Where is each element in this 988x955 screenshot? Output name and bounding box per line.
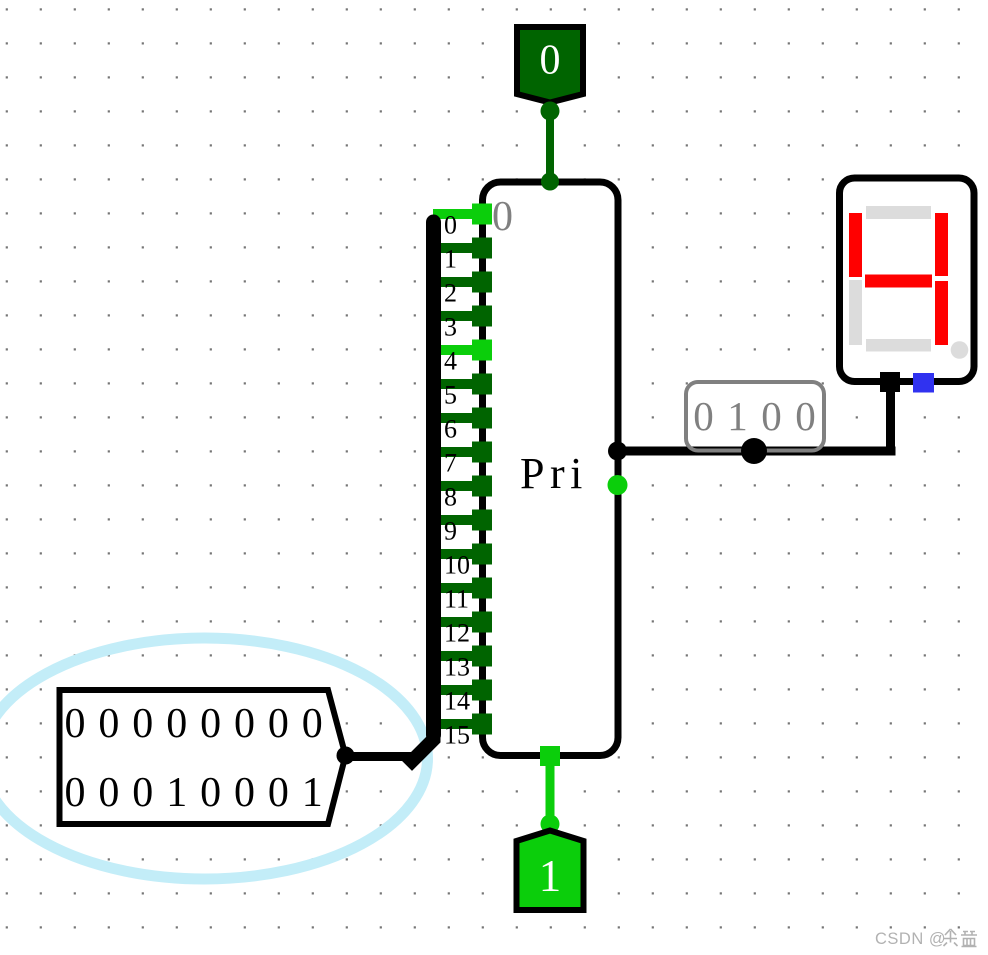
svg-text:0: 0 [65,770,86,816]
P2 value label row bits 15..8 [65,701,323,747]
svg-text:0: 0 [166,701,187,747]
input pin P2 body (16-bit) [60,690,346,824]
7-segment display U2 body [840,178,975,382]
wire stub input bit 0 (high) [433,204,492,225]
svg-text:6: 6 [444,415,457,444]
wire junction [741,438,767,464]
svg-text:1: 1 [166,770,187,816]
wire across probe bottom [686,447,824,456]
svg-text:0: 0 [268,770,289,816]
svg-text:0: 0 [693,393,714,439]
svg-text:CSDN @: CSDN @ [875,930,946,948]
wire stub input bit 5 (low) [433,374,492,395]
wire stub input bit 6 (low) [433,408,492,429]
svg-text:1: 1 [302,770,323,816]
node at P1 output [541,102,560,121]
svg-text:1: 1 [727,393,748,439]
svg-text:5: 5 [444,381,457,410]
svg-text:8: 8 [444,483,457,512]
U1 enable-out pin dot [608,475,628,495]
svg-text:0: 0 [132,701,153,747]
svg-text:1: 1 [539,851,562,901]
wire stub input bit 10 (low) [433,544,492,565]
svg-text:2: 2 [444,279,457,308]
segment C (on) [935,281,948,345]
wire stub input bit 3 (low) [433,306,492,327]
svg-text:15: 15 [444,721,470,750]
svg-text:0: 0 [234,701,255,747]
splitter S1 bus bar [426,222,441,735]
svg-text:10: 10 [444,551,470,580]
segment D (off) [866,339,931,352]
U2 input pad [880,372,900,392]
segment E (off) [849,280,862,345]
wire P1 to U1 enable-in [546,111,554,181]
svg-text:0: 0 [444,211,457,240]
watermark [875,929,977,948]
wire stub input bit 8 (low) [433,476,492,497]
svg-text:0: 0 [761,393,782,439]
U1 enable pad at bottom edge [540,746,560,766]
wire stub input bit 9 (low) [433,510,492,531]
decimal point (off) [951,341,969,359]
svg-text:0: 0 [492,194,513,240]
segment F (on) [849,213,862,277]
wire stub input bit 1 (low) [433,238,492,259]
svg-text:Pri: Pri [520,449,588,498]
node at U1 enable-in [541,173,559,191]
wire stub input bit 14 (low) [433,680,492,701]
wire stub input bit 7 (low) [433,442,492,463]
segment G (on) [865,275,932,288]
input pin P3 (enable, value 1) [517,831,584,911]
svg-text:0: 0 [234,770,255,816]
wire stub input bit 2 (low) [433,272,492,293]
wire riser to display input [886,373,895,456]
U2 unconnected pad (floating) [913,373,934,393]
wire stub input bit 15 (low) [433,714,492,735]
svg-text:0: 0 [98,701,119,747]
segment A (off) [866,206,931,219]
svg-text:12: 12 [444,619,470,648]
svg-text:0: 0 [132,770,153,816]
node at P2 output [337,747,355,765]
wire stub input bit 12 (low) [433,612,492,633]
svg-text:7: 7 [444,449,457,478]
svg-text:14: 14 [444,687,470,716]
node at P3 [541,815,560,834]
probe PR1 value label 0100 [693,393,816,439]
wire stub input bit 11 (low) [433,578,492,599]
probe PR1 body fill [686,382,824,451]
svg-text:0: 0 [795,393,816,439]
svg-text:0: 0 [98,770,119,816]
P2 value label row bits 7..0 [65,770,323,816]
svg-text:0: 0 [540,38,561,84]
node at U1 output [608,442,627,461]
svg-text:3: 3 [444,313,457,342]
wire stub input bit 4 (high) [433,340,492,361]
svg-text:9: 9 [444,517,457,546]
splitter S1 diagonal leg [412,728,434,761]
wire U1 output to display [618,447,896,456]
svg-text:13: 13 [444,653,470,682]
input pin P1 (enable, value 0) [517,27,583,103]
wire P2 to splitter S1 [345,752,413,761]
priority encoder U1 body [483,182,619,756]
svg-text:11: 11 [444,585,469,614]
wire stub input bit 13 (low) [433,646,492,667]
svg-text:0: 0 [200,770,221,816]
svg-text:1: 1 [444,245,457,274]
svg-text:0: 0 [302,701,323,747]
svg-text:0: 0 [268,701,289,747]
segment B (on) [935,213,948,276]
svg-text:4: 4 [444,347,457,376]
wire U1 to P3 [546,766,555,824]
svg-text:0: 0 [65,701,86,747]
svg-text:0: 0 [200,701,221,747]
probe PR1 border [686,382,824,451]
annotation highlight ellipse [0,638,428,879]
